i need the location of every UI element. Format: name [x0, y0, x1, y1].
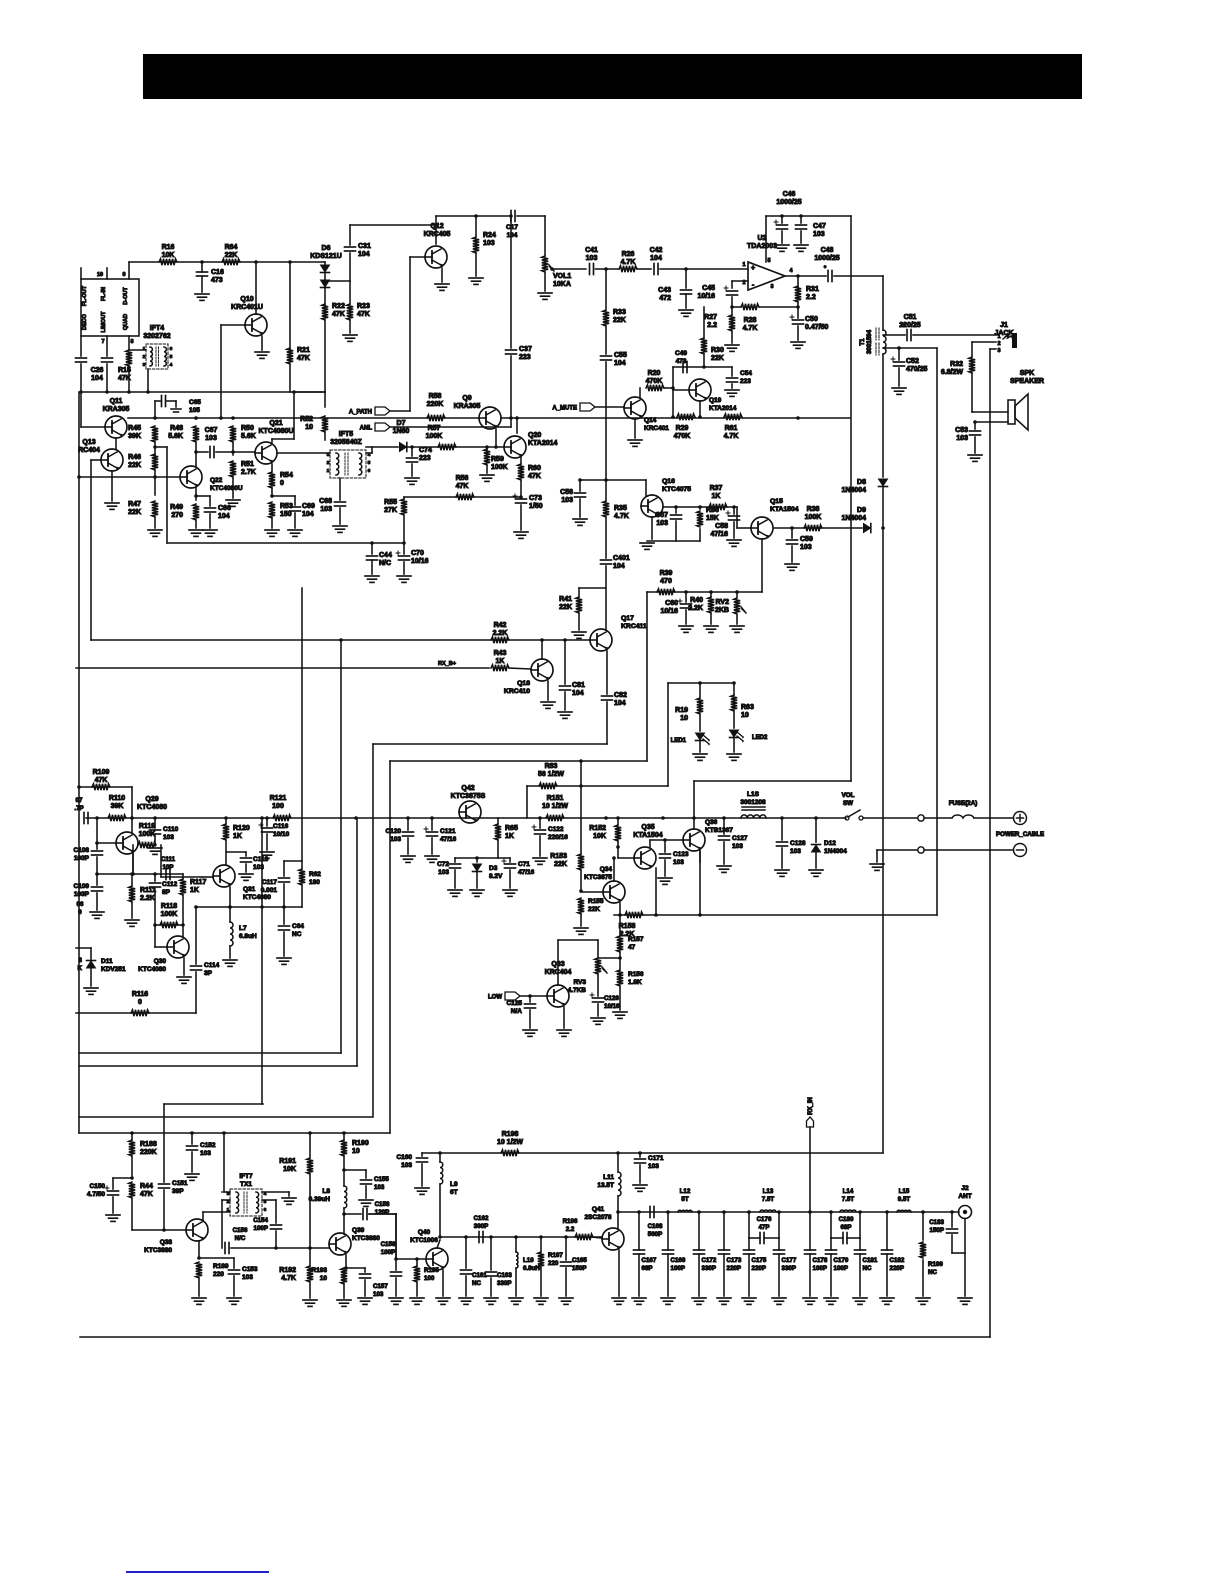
- capacitor C120: [407, 818, 409, 830]
- svg-text:10 1/2W: 10 1/2W: [497, 1139, 523, 1146]
- svg-text:ANT: ANT: [958, 1193, 971, 1200]
- svg-text:104: 104: [614, 700, 626, 707]
- wire switch to connector: [863, 817, 917, 819]
- svg-text:270: 270: [171, 512, 183, 519]
- svg-text:220K: 220K: [427, 401, 444, 408]
- svg-text:N/A: N/A: [511, 1008, 523, 1015]
- R50 column: [232, 418, 234, 419]
- inductor L8: [344, 1186, 347, 1208]
- ground C44: [365, 575, 379, 577]
- wire: [90, 968, 92, 986]
- resistor R191: [307, 1158, 313, 1174]
- svg-text:C126: C126: [604, 995, 619, 1002]
- svg-text:Q16: Q16: [662, 478, 675, 485]
- resistor R21: [287, 348, 293, 364]
- svg-text:7: 7: [101, 339, 104, 345]
- resistor R35: [603, 501, 609, 517]
- svg-text:L15: L15: [899, 1188, 910, 1195]
- LED rail: [668, 682, 734, 684]
- svg-text:150: 150: [280, 511, 292, 518]
- svg-text:0.39uH: 0.39uH: [309, 1196, 331, 1203]
- ground C72: [448, 889, 462, 891]
- svg-text:C59: C59: [800, 536, 813, 543]
- ground C50: [791, 341, 805, 343]
- resistor R197: [540, 1237, 542, 1252]
- wire Q12 base: [410, 256, 425, 258]
- transistor Q15: [751, 517, 773, 539]
- svg-text:104: 104: [91, 375, 103, 382]
- diode D6b: [321, 280, 330, 287]
- svg-text:KRA305: KRA305: [454, 403, 481, 410]
- wire: [132, 845, 134, 872]
- svg-text:R28: R28: [744, 317, 757, 324]
- resistor R195: [416, 1259, 418, 1266]
- capacitor C66: [205, 507, 216, 509]
- Q40 collector: [437, 1240, 440, 1248]
- capacitor C114: [191, 965, 202, 967]
- ground R156: [613, 1011, 627, 1013]
- svg-text:R188: R188: [140, 1141, 157, 1148]
- C117 jog: [284, 860, 302, 862]
- svg-text:22K: 22K: [613, 317, 626, 324]
- svg-text:5.6K: 5.6K: [241, 433, 256, 440]
- svg-text:R38: R38: [807, 506, 820, 513]
- riser x357: [356, 818, 358, 1066]
- wire: [952, 1252, 965, 1254]
- Q11 emitter: [115, 438, 117, 449]
- svg-text:2KB: 2KB: [715, 607, 729, 614]
- capacitor C154: [271, 1224, 282, 1226]
- svg-text:C44: C44: [379, 552, 392, 559]
- line y874: [97, 873, 183, 875]
- Q34 collector: [613, 858, 615, 881]
- wire minus left: [877, 849, 917, 851]
- svg-text:103: 103: [200, 1150, 211, 1157]
- wire to Q17 collector: [605, 566, 607, 629]
- IFT4 pin wire to bus: [147, 369, 149, 392]
- svg-text:K: K: [78, 965, 83, 972]
- wire U2 pin2: [732, 280, 748, 282]
- svg-text:103: 103: [438, 869, 449, 876]
- transistor Q33: [547, 985, 569, 1007]
- svg-text:Q21: Q21: [269, 420, 282, 427]
- node C43: [684, 267, 688, 271]
- resistor R31: [795, 286, 801, 302]
- ground C150: [106, 1214, 120, 1216]
- wire to T1: [834, 275, 883, 277]
- diode D3: [473, 864, 482, 871]
- ground R197: [534, 1297, 548, 1299]
- svg-text:Q41: Q41: [592, 1206, 605, 1213]
- transistor Q35: [634, 847, 656, 869]
- Q16 base riser: [645, 480, 647, 496]
- wire x527 down: [526, 786, 528, 818]
- R39 row y592: [647, 591, 762, 593]
- wire: [596, 268, 620, 270]
- svg-text:R21: R21: [297, 347, 310, 354]
- svg-text:Q9: Q9: [462, 395, 471, 402]
- svg-text:100P: 100P: [254, 1225, 268, 1232]
- resistor R47: [152, 501, 158, 517]
- svg-text:R199: R199: [928, 1261, 943, 1268]
- svg-text:27K: 27K: [384, 507, 397, 514]
- svg-text:R192: R192: [279, 1267, 296, 1274]
- transistor Q19: [689, 379, 711, 401]
- svg-text:R65: R65: [505, 825, 518, 832]
- svg-text:C177: C177: [782, 1257, 797, 1264]
- capacitor C16: [201, 262, 203, 272]
- wire C37 to mute rail: [510, 356, 512, 418]
- resistor R64: [222, 259, 240, 265]
- capacitor C173: [723, 1212, 725, 1250]
- svg-text:C116: C116: [273, 823, 289, 830]
- svg-text:C81: C81: [572, 682, 585, 689]
- ground Q14: [628, 439, 642, 441]
- wire: [369, 1213, 396, 1215]
- svg-text:Q40: Q40: [418, 1229, 431, 1236]
- svg-text:C112: C112: [162, 881, 178, 888]
- transistor Q30: [167, 936, 189, 958]
- wire: [439, 1184, 441, 1237]
- svg-text:N/C: N/C: [379, 560, 391, 567]
- ground R53: [265, 529, 279, 531]
- svg-text:L10: L10: [523, 1257, 534, 1264]
- svg-text:1N60: 1N60: [393, 428, 410, 435]
- capacitor C161: [465, 1237, 467, 1268]
- svg-text:R51: R51: [241, 461, 254, 468]
- svg-text:Q34: Q34: [600, 866, 613, 873]
- Q38 base: [132, 1229, 186, 1231]
- svg-text:C71: C71: [518, 861, 530, 868]
- resistor R120: [223, 824, 229, 840]
- inductor L15: [897, 1210, 911, 1212]
- svg-text:Q12: Q12: [430, 223, 443, 230]
- IFT7 right pin2: [262, 1199, 276, 1201]
- Q33 emitter: [563, 1007, 565, 1028]
- ground Q30: [177, 976, 191, 978]
- svg-text:C122: C122: [548, 826, 564, 833]
- R153 feed: [580, 761, 582, 854]
- capacitor C31: [349, 225, 351, 245]
- svg-text:2.2: 2.2: [707, 322, 717, 329]
- svg-text:C178: C178: [813, 1257, 828, 1264]
- Q29 base: [97, 842, 116, 844]
- ground Q18: [541, 701, 555, 703]
- svg-text:47K: 47K: [118, 375, 131, 382]
- capacitor C160: [422, 1152, 440, 1154]
- transistor Q20: [504, 436, 526, 458]
- transistor Q16: [641, 495, 663, 517]
- L9 column: [439, 1153, 441, 1162]
- svg-text:C180: C180: [839, 1216, 854, 1223]
- svg-text:D9: D9: [857, 507, 866, 514]
- ground C182: [880, 1297, 894, 1299]
- resistor R19: [699, 683, 701, 698]
- resistor R65: [497, 818, 499, 824]
- svg-text:C172: C172: [702, 1257, 717, 1264]
- svg-text:103: 103: [673, 859, 684, 866]
- svg-text:N/C: N/C: [235, 1235, 246, 1242]
- resistor R63: [733, 683, 735, 695]
- R111: [131, 874, 133, 886]
- capacitor C126 sym: [593, 997, 604, 999]
- Q31 emitter: [229, 887, 231, 907]
- transistor Q13: [101, 449, 123, 471]
- svg-text:C155: C155: [374, 1176, 389, 1183]
- ground C73: [514, 531, 528, 533]
- svg-text:R116: R116: [132, 991, 148, 998]
- svg-text:R155: R155: [588, 898, 604, 905]
- C49 row: [672, 367, 674, 388]
- Q22 collector: [195, 452, 197, 466]
- long line y477: [79, 476, 180, 478]
- svg-text:C173: C173: [727, 1257, 742, 1264]
- svg-text:C69: C69: [302, 503, 315, 510]
- svg-text:R56: R56: [456, 475, 469, 482]
- capacitor C47: [800, 216, 802, 223]
- svg-text:1N4004: 1N4004: [841, 515, 866, 522]
- svg-text:47K: 47K: [95, 777, 108, 784]
- svg-text:Q35: Q35: [641, 824, 654, 831]
- ground C155: [359, 1199, 373, 1201]
- svg-text:VOL1: VOL1: [553, 273, 571, 280]
- svg-text:100: 100: [272, 803, 284, 810]
- svg-text:220: 220: [548, 1260, 559, 1267]
- bridge C180: [830, 1212, 832, 1238]
- potentiometer VOL1: [544, 216, 546, 256]
- wire x937 vertical: [936, 348, 938, 915]
- svg-text:47/16: 47/16: [518, 869, 535, 876]
- capacitor C125: [529, 996, 531, 1002]
- svg-text:13.5T: 13.5T: [597, 1182, 614, 1189]
- wire: [815, 852, 817, 868]
- svg-text:104: 104: [613, 563, 625, 570]
- svg-text:100P: 100P: [74, 855, 90, 862]
- capacitor C112: [154, 874, 156, 881]
- capacitor C51: [906, 330, 908, 341]
- capacitor C58: [733, 507, 735, 514]
- wire x883 down to T1: [882, 276, 884, 330]
- svg-text:6.8uH: 6.8uH: [239, 933, 257, 940]
- ground IFT7: [282, 1197, 296, 1199]
- svg-text:R19: R19: [675, 707, 688, 714]
- svg-text:C156: C156: [233, 1227, 248, 1234]
- fuse: [924, 817, 952, 819]
- capacitor C162: [478, 1232, 480, 1243]
- resistor R50: [230, 426, 236, 442]
- RX_B+ line y668: [76, 667, 489, 669]
- svg-text:10: 10: [305, 424, 313, 431]
- svg-text:2: 2: [997, 341, 1000, 347]
- svg-text:22K: 22K: [554, 861, 567, 868]
- svg-text:C48: C48: [821, 247, 834, 254]
- capacitor C72: [454, 858, 456, 862]
- ground C169: [661, 1297, 675, 1299]
- inductor L7: [229, 907, 231, 922]
- wire J2 down: [964, 1219, 966, 1297]
- ground C120: [401, 855, 415, 857]
- svg-text:C41: C41: [585, 247, 598, 254]
- ground R199: [916, 1297, 930, 1299]
- svg-text:C109: C109: [73, 883, 89, 890]
- wire: [343, 1284, 345, 1298]
- svg-text:C26: C26: [91, 367, 104, 374]
- ground R47: [148, 529, 162, 531]
- bus y1117: [79, 1116, 372, 1118]
- ground C127: [717, 865, 731, 867]
- wire to C66: [196, 495, 210, 497]
- capacitor C56: [579, 480, 581, 491]
- svg-text:C176: C176: [757, 1216, 772, 1223]
- wire: [476, 872, 478, 888]
- plus terminal: [1014, 812, 1027, 825]
- svg-text:C56: C56: [560, 489, 573, 496]
- Q30 emitter: [183, 958, 185, 975]
- IFT7 block: [230, 1189, 262, 1216]
- svg-text:KTC3875S: KTC3875S: [451, 793, 486, 800]
- svg-text:D8: D8: [857, 479, 866, 486]
- svg-text:C66: C66: [218, 505, 231, 512]
- svg-text:10K: 10K: [162, 252, 175, 259]
- svg-text:47K: 47K: [456, 483, 469, 490]
- resistor R121 sym: [273, 815, 291, 821]
- wire T1 tap2: [883, 347, 937, 349]
- svg-text:4: 4: [170, 362, 173, 368]
- svg-text:C401: C401: [613, 555, 630, 562]
- svg-text:1N4004: 1N4004: [824, 848, 847, 855]
- rect1 y744: [373, 743, 607, 745]
- wire D8 to D9 node: [882, 487, 884, 528]
- wire: [275, 1231, 277, 1248]
- ground C179: [824, 1297, 838, 1299]
- Q15 emitter: [761, 539, 763, 592]
- inductor L11: [618, 1172, 621, 1196]
- svg-text:C16: C16: [211, 269, 224, 276]
- svg-text:47/16: 47/16: [440, 836, 457, 843]
- ground R189: [192, 1297, 206, 1299]
- capacitor C150: [113, 1177, 132, 1179]
- resistor R153 sym: [578, 854, 584, 870]
- wire ANL: [390, 426, 511, 428]
- svg-text:470K: 470K: [674, 433, 691, 440]
- resistor R111: [129, 886, 135, 902]
- svg-text:1: 1: [227, 1207, 230, 1213]
- resistor R157: [619, 915, 621, 936]
- wire: [710, 613, 712, 624]
- zener D3: [476, 858, 478, 862]
- capacitor C171: [639, 1153, 641, 1157]
- svg-text:100K: 100K: [161, 911, 178, 918]
- bridge C176: [748, 1212, 750, 1238]
- svg-text:R31: R31: [806, 286, 819, 293]
- wire Q10 base: [221, 324, 245, 326]
- svg-text:C43: C43: [658, 287, 671, 294]
- wire R22 to bus: [324, 320, 326, 392]
- resistor R26: [619, 266, 637, 272]
- capacitor C54: [731, 367, 733, 376]
- resistor R61: [724, 414, 742, 420]
- svg-text:C111: C111: [161, 856, 176, 863]
- svg-text:10/16: 10/16: [660, 608, 678, 615]
- ground R155: [574, 927, 588, 929]
- svg-text:2SC2078: 2SC2078: [584, 1214, 611, 1221]
- svg-text:100P: 100P: [74, 891, 90, 898]
- svg-text:R15: R15: [118, 367, 131, 374]
- svg-text:103: 103: [373, 1291, 384, 1298]
- svg-text:R42: R42: [494, 622, 507, 629]
- svg-text:100P: 100P: [813, 1265, 827, 1272]
- wire: [271, 518, 273, 528]
- svg-text:KTC4080: KTC4080: [243, 894, 271, 901]
- svg-text:5: 5: [170, 354, 173, 360]
- svg-text:1K: 1K: [712, 493, 721, 500]
- svg-text:3205840Z: 3205840Z: [330, 439, 362, 446]
- wire: [605, 517, 607, 558]
- wire: [486, 465, 488, 473]
- svg-text:22K: 22K: [128, 462, 141, 469]
- R52 column: [324, 392, 326, 407]
- svg-text:104: 104: [650, 255, 662, 262]
- Q11 base: [81, 426, 104, 428]
- svg-text:R52: R52: [300, 416, 313, 423]
- svg-text:R157: R157: [628, 936, 644, 943]
- svg-text:3001594: 3001594: [866, 329, 873, 354]
- svg-text:47K: 47K: [332, 311, 345, 318]
- svg-text:3: 3: [79, 957, 83, 964]
- ground RV2: [730, 625, 744, 627]
- Q34 emitter: [619, 903, 621, 915]
- header bar: [143, 54, 1082, 99]
- IFT5 coil L: [336, 453, 339, 475]
- svg-text:C54: C54: [740, 370, 752, 377]
- capacitor C65: [154, 401, 156, 418]
- capacitor C128: [781, 818, 783, 840]
- capacitor C55: [601, 355, 612, 357]
- ground R23: [343, 334, 357, 336]
- svg-text:10/10: 10/10: [273, 831, 290, 838]
- capacitor C52: [898, 348, 900, 360]
- svg-text:Q20: Q20: [528, 432, 541, 439]
- svg-text:560P: 560P: [648, 1231, 662, 1238]
- svg-text:103: 103: [163, 834, 174, 841]
- svg-text:103: 103: [374, 1184, 385, 1191]
- wire D6 mid tap: [324, 273, 326, 280]
- svg-text:103: 103: [242, 1274, 253, 1281]
- audio line y269: [552, 268, 586, 270]
- wire: [951, 1235, 953, 1253]
- svg-text:KTC3880: KTC3880: [352, 1235, 380, 1242]
- svg-text:220P: 220P: [727, 1265, 741, 1272]
- resistor R36: [697, 511, 703, 527]
- svg-text:1/50: 1/50: [529, 503, 543, 510]
- wire RX_IN down: [809, 1127, 811, 1212]
- svg-text:R119: R119: [139, 823, 155, 830]
- R116 line: [76, 1012, 196, 1014]
- resistor R21 wires: [289, 262, 291, 349]
- svg-text:4.7/50: 4.7/50: [87, 1191, 105, 1198]
- Q29 emitter: [132, 854, 134, 874]
- svg-text:C52: C52: [906, 358, 919, 365]
- resistor R41: [576, 597, 582, 613]
- IFT7 top pin riser: [223, 1133, 225, 1192]
- resistor R152: [615, 825, 621, 841]
- zener row: [455, 857, 510, 859]
- wire: [597, 974, 599, 996]
- svg-text:103: 103: [320, 506, 332, 513]
- svg-text:R193: R193: [311, 1267, 327, 1274]
- svg-text:C163: C163: [497, 1272, 512, 1279]
- ground C167: [632, 1297, 646, 1299]
